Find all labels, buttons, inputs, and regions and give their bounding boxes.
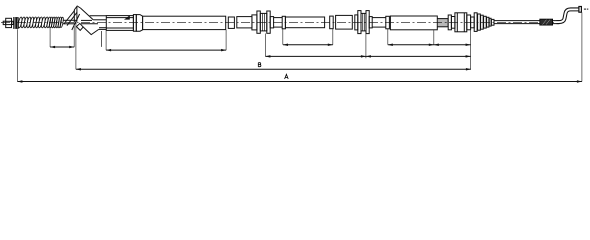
label B — [258, 63, 261, 67]
dimension line A — [17, 81, 582, 83]
grommet 2 — [355, 11, 372, 34]
left flange pair — [14, 17, 16, 29]
sleeve b — [237, 17, 252, 28]
z-end centerline stub — [584, 8, 586, 10]
centerline main axis — [1, 21, 558, 23]
z-bend tube — [557, 9, 580, 22]
dimension line grommet-to-grommet — [265, 55, 470, 57]
bracket neck second line — [93, 19, 106, 21]
nut — [448, 15, 451, 30]
stop sleeve 1 — [282, 16, 285, 29]
housing ring — [133, 15, 136, 32]
bracket neck top line — [90, 15, 107, 17]
housing notch — [124, 15, 130, 19]
housing cylinder — [106, 16, 133, 31]
z-end cap — [579, 7, 582, 13]
dimension line B — [76, 68, 471, 70]
dimension line grommet2-to-tube-end — [388, 44, 471, 46]
dimension line grommet1-to-collar — [283, 44, 333, 46]
grommet 1 — [252, 11, 274, 33]
left neck — [12, 21, 14, 24]
cone spring boot — [474, 13, 491, 32]
threaded rod — [437, 19, 448, 27]
collar 3 — [467, 15, 471, 30]
bracket plate lower edge — [101, 31, 103, 47]
bracket plate bottom line — [99, 28, 107, 30]
housing collar — [136, 15, 142, 32]
coil spring — [17, 17, 63, 28]
bracket diagonal D1 — [80, 8, 93, 20]
boot tip — [491, 19, 494, 25]
collar 2 — [330, 16, 334, 29]
stop sleeve 2 — [386, 16, 390, 29]
step — [471, 17, 475, 28]
sleeve a — [228, 17, 234, 28]
cable seg 2 — [372, 18, 386, 28]
bracket diagonal strap — [64, 6, 81, 30]
bracket bottom diamond tip — [76, 23, 83, 30]
thin cable right — [494, 21, 560, 24]
dimension line housing-to-tube — [106, 49, 226, 51]
sleeve c — [336, 15, 353, 29]
left barrel nut — [6, 18, 12, 27]
conduit 1 — [285, 17, 324, 28]
bracket diagonal D2 — [83, 27, 99, 35]
extension lines — [17, 12, 582, 81]
tube 1 — [143, 16, 226, 29]
wire spring-to-bracket — [63, 20, 98, 24]
label A — [285, 74, 289, 79]
cable seg — [274, 18, 283, 28]
adjuster body — [455, 13, 467, 32]
spacer — [451, 17, 455, 29]
dimension line spring-to-bracket — [50, 46, 74, 48]
tube 2 — [390, 16, 437, 30]
bracket plate inner line — [99, 27, 106, 29]
dimension arrows — [17, 43, 582, 82]
left end stud — [3, 21, 5, 24]
left washer — [17, 18, 18, 29]
crimp sleeve — [540, 19, 553, 25]
